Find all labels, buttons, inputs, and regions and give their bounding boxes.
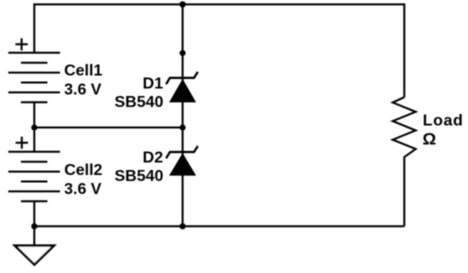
svg-text:D1: D1 (143, 75, 164, 92)
svg-text:3.6 V: 3.6 V (64, 181, 102, 198)
svg-text:SB540: SB540 (114, 168, 163, 185)
svg-text:Cell2: Cell2 (64, 162, 102, 179)
svg-text:Load: Load (423, 113, 464, 130)
svg-text:Ω: Ω (423, 129, 437, 148)
svg-text:Cell1: Cell1 (64, 63, 102, 80)
svg-text:3.6 V: 3.6 V (64, 82, 102, 99)
svg-text:SB540: SB540 (114, 94, 163, 111)
svg-text:D2: D2 (143, 150, 164, 167)
